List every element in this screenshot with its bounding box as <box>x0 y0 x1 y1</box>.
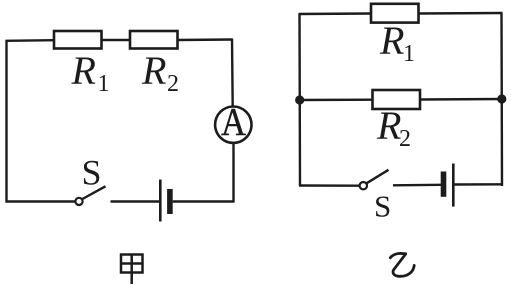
wire switch to battery (right circuit) <box>393 184 441 187</box>
resistor R1 (left circuit) <box>54 31 102 49</box>
node junction dot right <box>497 94 506 103</box>
svg-text:R: R <box>71 48 96 93</box>
svg-text:S: S <box>374 189 391 224</box>
wire top-left segment (right circuit) <box>299 12 372 15</box>
switch S pivot circle (left circuit) <box>75 198 82 205</box>
battery short thick plate (right circuit) <box>441 172 447 197</box>
svg-text:R: R <box>376 103 401 148</box>
svg-text:R: R <box>379 18 404 63</box>
wire bottom-left segment to switch <box>6 200 75 202</box>
wire R2 to top-right corner <box>178 38 233 41</box>
wire left vertical (left circuit) <box>5 40 7 203</box>
switch S blade (right circuit) <box>367 170 389 183</box>
resistor R2 (left circuit) <box>130 31 178 49</box>
wire middle branch left segment <box>300 98 373 101</box>
wire right vertical upper (to ammeter) <box>231 39 234 107</box>
svg-text:R: R <box>141 48 166 93</box>
battery long plate (left circuit) <box>159 180 162 222</box>
resistor R2 (right circuit) <box>373 90 421 109</box>
wire right vertical lower (ammeter to bottom) <box>232 143 234 203</box>
wire bottom-left segment to switch (right circuit) <box>299 184 359 187</box>
wire R1 to top-right corner <box>419 12 503 15</box>
node junction dot left <box>295 95 304 104</box>
label 乙 (drawn strokes) <box>390 253 414 276</box>
svg-text:A: A <box>221 99 246 143</box>
battery short thick plate (left circuit) <box>167 189 173 214</box>
svg-text:1: 1 <box>98 71 110 97</box>
switch S pivot circle (right circuit) <box>360 182 367 189</box>
label 甲 (drawn strokes) <box>121 255 143 285</box>
wire left vertical (right circuit) <box>298 14 301 186</box>
switch S blade (left circuit) <box>82 186 105 199</box>
wire switch to battery <box>111 200 160 202</box>
svg-text:2: 2 <box>167 71 179 97</box>
wire between R1 and R2 <box>102 39 131 41</box>
battery long plate (right circuit) <box>452 164 455 207</box>
svg-text:2: 2 <box>399 126 411 152</box>
wire battery to bottom-right corner <box>173 200 234 202</box>
svg-text:1: 1 <box>403 41 415 67</box>
resistor R1 (right circuit) <box>371 4 419 23</box>
wire top-left segment <box>6 39 55 42</box>
wire battery to bottom-right corner (right circuit) <box>455 183 504 186</box>
svg-text:S: S <box>82 153 102 193</box>
ammeter A1 (circle) <box>215 107 251 143</box>
wire right vertical (right circuit) <box>500 13 503 186</box>
wire middle branch right segment <box>420 98 502 101</box>
